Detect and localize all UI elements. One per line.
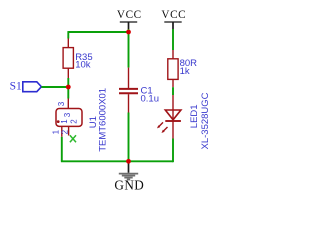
node VCC junction dot bbox=[126, 30, 131, 35]
U1 internal pad dot bbox=[57, 120, 60, 123]
resistor R35 bottom pin bbox=[67, 68, 69, 78]
svg-text:S1: S1 bbox=[10, 81, 22, 93]
svg-text:XL-3528UGC: XL-3528UGC bbox=[200, 92, 211, 149]
svg-text:2: 2 bbox=[61, 129, 70, 134]
svg-text:VCC: VCC bbox=[117, 9, 142, 21]
wire top horizontal R35 to VCC node bbox=[68, 31, 128, 33]
supply VCC 1 bar bbox=[120, 21, 137, 23]
resistor 80R top pin bbox=[172, 50, 174, 59]
ground bar 3 bbox=[124, 177, 132, 179]
node A junction dot bbox=[66, 85, 71, 90]
supply VCC 2 bar bbox=[164, 21, 181, 23]
capacitor C1 bottom pin bbox=[128, 94, 130, 112]
supply VCC 1 stub bbox=[128, 22, 130, 29]
capacitor C1 top plate bbox=[119, 88, 138, 90]
wire VCC2 to 80R bbox=[172, 29, 174, 50]
wire S1 to node A bbox=[41, 86, 68, 88]
LED1 cathode bar bbox=[165, 120, 181, 122]
wire VCC1 stub to node bbox=[128, 29, 130, 32]
svg-text:1: 1 bbox=[60, 119, 69, 124]
capacitor C1 bottom plate bbox=[119, 92, 138, 94]
U1 pin 1 stub bbox=[61, 126, 63, 136]
svg-text:1: 1 bbox=[52, 129, 61, 134]
LED1 emission arrow 2 bbox=[162, 127, 168, 133]
svg-text:VCC: VCC bbox=[161, 9, 186, 21]
LED1 anode pin bbox=[172, 95, 174, 120]
wire C1 to GND node bbox=[128, 113, 130, 162]
resistor 80R body bbox=[168, 59, 178, 80]
svg-text:10k: 10k bbox=[75, 60, 91, 71]
capacitor C1 top pin bbox=[128, 68, 130, 88]
svg-text:3: 3 bbox=[63, 112, 72, 117]
svg-text:LED1: LED1 bbox=[189, 104, 200, 128]
wire LED1 to bottom bbox=[172, 139, 174, 163]
wire node A to U1 pin 3 bbox=[67, 87, 69, 99]
no-connect X on pin 2 bbox=[70, 135, 76, 142]
wire U1 pin1 down bbox=[61, 137, 63, 162]
ground bar 2 bbox=[122, 175, 135, 177]
wire bottom horizontal to GND node bbox=[61, 160, 173, 162]
ground bar 4 bbox=[127, 179, 130, 181]
U1 pin 2 stub bbox=[68, 126, 70, 135]
svg-text:1k: 1k bbox=[180, 66, 190, 77]
port S1 pentagon flag bbox=[23, 82, 42, 92]
ground stub bbox=[128, 161, 130, 173]
svg-text:GND: GND bbox=[114, 178, 144, 193]
LED1 triangle bbox=[165, 110, 181, 120]
resistor R35 top pin bbox=[67, 39, 69, 49]
wire VCC node down to C1 bbox=[128, 32, 130, 68]
supply VCC 2 stub bbox=[172, 22, 174, 29]
svg-text:0.1u: 0.1u bbox=[141, 94, 160, 105]
resistor 80R bottom pin bbox=[172, 79, 174, 87]
LED1 cathode pin bbox=[172, 121, 174, 139]
LED1 emission arrow 1 bbox=[157, 122, 163, 128]
wire R35 to node A bbox=[67, 78, 69, 87]
svg-text:TEMT6000X01: TEMT6000X01 bbox=[97, 88, 108, 152]
phototransistor U1 body bbox=[56, 109, 82, 127]
wire 80R to LED1 bbox=[172, 87, 174, 95]
ground bar 1 bbox=[119, 173, 138, 175]
wire short vertical at R35 top bbox=[67, 31, 69, 38]
svg-text:3: 3 bbox=[57, 101, 66, 106]
resistor R35 body bbox=[63, 48, 73, 69]
op U1 pin 3 stub bbox=[67, 99, 69, 109]
node GND junction dot bbox=[126, 159, 131, 164]
svg-text:2: 2 bbox=[69, 119, 78, 124]
